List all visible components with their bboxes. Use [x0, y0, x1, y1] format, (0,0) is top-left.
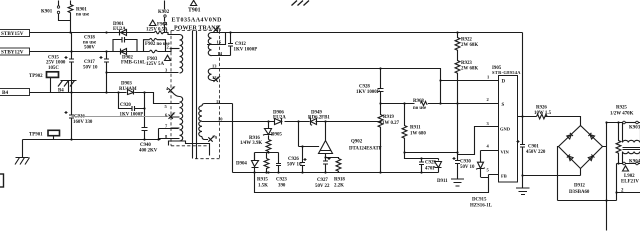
svg-text:C915: C915 — [48, 55, 59, 60]
svg-text:D905: D905 — [271, 132, 282, 137]
svg-text:2W 68K: 2W 68K — [461, 43, 478, 48]
svg-text:1KV 1000P: 1KV 1000P — [356, 90, 380, 95]
svg-text:FMB-G16L: FMB-G16L — [121, 61, 146, 66]
svg-text:DC915: DC915 — [472, 198, 487, 203]
wire winding B bottom to pin9 area — [169, 141, 210, 156]
svg-text:R919: R919 — [383, 115, 394, 120]
svg-text:R922: R922 — [461, 37, 472, 42]
svg-text:125V 5A: 125V 5A — [146, 62, 164, 67]
svg-text:11: 11 — [216, 99, 221, 104]
wire pin11 to secondary ground — [232, 104, 234, 173]
svg-text:1/4W 3.9K: 1/4W 3.9K — [240, 141, 262, 146]
svg-text:2W 68K: 2W 68K — [461, 67, 478, 72]
svg-text:50V 10: 50V 10 — [460, 165, 475, 170]
diode D911 — [435, 159, 449, 185]
svg-text:TP901: TP901 — [29, 132, 43, 137]
wire primary DC rail pin16 y=32.5 — [212, 33, 523, 145]
svg-text:1/2W 470K: 1/2W 470K — [610, 111, 634, 116]
svg-text:S: S — [502, 103, 505, 108]
diode D905 — [263, 122, 282, 140]
svg-text:450V 220: 450V 220 — [526, 150, 546, 155]
node junction K901/R901 on 15V rail — [69, 31, 71, 33]
svg-text:500V: 500V — [84, 45, 95, 50]
jumper K901 — [41, 1, 71, 21]
svg-text:25V 1000: 25V 1000 — [46, 61, 66, 66]
svg-text:GND: GND — [500, 127, 511, 132]
capacitor C917 electrolytic — [83, 52, 109, 93]
transformer winding B pins 4-8 — [171, 93, 183, 141]
IC I905 STR-G8954A — [492, 66, 521, 182]
hand mark /// top — [292, 1, 310, 6]
wire secondary return pin3 y=72.8 — [107, 72, 179, 74]
wire AC right leg — [603, 123, 607, 231]
wire AC link top y=122.5 — [607, 122, 640, 124]
svg-text:VIN: VIN — [501, 150, 510, 155]
svg-text:D904: D904 — [236, 162, 247, 167]
svg-text:105C: 105C — [48, 66, 59, 71]
svg-text:1W 680: 1W 680 — [410, 131, 426, 136]
wire secondary ground bus A y=174 — [233, 172, 439, 174]
svg-text:C926: C926 — [288, 157, 299, 162]
svg-text:R926: R926 — [536, 105, 547, 110]
svg-text:ET035AA4V0ND: ET035AA4V0ND — [172, 18, 223, 24]
svg-text:D903: D903 — [121, 82, 132, 87]
jumper K904 — [617, 160, 640, 165]
resistor R915 1.5K — [257, 159, 269, 189]
test point TP902 — [29, 72, 59, 93]
fuse F902 no use — [145, 38, 171, 47]
test point TP901 — [29, 130, 60, 139]
capacitor C927 electrolytic — [315, 157, 331, 189]
svg-text:D911: D911 — [437, 179, 448, 184]
no-connect mark pin 9 — [208, 136, 214, 142]
ground symbol below C930 — [451, 164, 464, 187]
svg-text:C928: C928 — [359, 85, 370, 90]
svg-text:C940: C940 — [140, 143, 151, 148]
svg-text:C917: C917 — [84, 60, 95, 65]
svg-text:DTA124ESATF: DTA124ESATF — [349, 146, 382, 151]
connector STBY12V — [0, 48, 30, 56]
svg-text:R918: R918 — [334, 178, 345, 183]
wire drain pin13 to IC pin1 — [212, 69, 499, 105]
diode D904 — [236, 153, 259, 173]
chassis shield symbol near B4 — [58, 81, 77, 94]
svg-text:R911: R911 — [410, 125, 421, 130]
zener D949 RD6.2FB1 — [308, 111, 330, 126]
capacitor C912 snubber — [207, 33, 257, 56]
ground symbol below C901 — [516, 176, 530, 195]
svg-text:HZS16-1L: HZS16-1L — [470, 204, 493, 209]
capacitor C915 electrolytic — [46, 33, 74, 93]
svg-text:no use: no use — [76, 12, 90, 17]
wire STBY12V rail y=51.5 — [30, 40, 180, 52]
svg-text:D: D — [502, 80, 506, 85]
svg-text:T901: T901 — [188, 8, 201, 14]
no-connect mark pin 6 — [169, 113, 174, 119]
transformer winding E pins 11-10-9 — [199, 104, 233, 140]
no-connect mark pin 16 — [214, 26, 219, 32]
L902 label with warning — [621, 166, 639, 185]
transformer dashed boundary — [171, 31, 220, 159]
resistor R925 1/2W 470K — [610, 106, 634, 164]
svg-text:STBY12V: STBY12V — [1, 50, 24, 56]
svg-text:1.5K: 1.5K — [258, 183, 268, 188]
capacitor C926 electrolytic — [287, 157, 307, 173]
svg-text:10: 10 — [218, 117, 223, 122]
wire pin7 pin8 returns — [159, 129, 179, 140]
wire B4 bus y=92 — [30, 93, 179, 104]
zener D915 HZS16-1L — [470, 151, 493, 209]
svg-text:FB: FB — [501, 174, 507, 179]
wire feedback winding rail pin10 y=121.5 — [209, 121, 381, 123]
fuse F903 with warning triangle — [146, 50, 171, 67]
svg-text:B4: B4 — [2, 90, 8, 96]
capacitor C929 470P — [419, 159, 436, 173]
transformer primary-left winding A pins 1-2-3 — [170, 35, 183, 74]
capacitor C928 1KV 1000P — [356, 69, 384, 104]
wire rail P y=152 and rail Q y=159 — [405, 153, 458, 159]
svg-text:400 2KV: 400 2KV — [139, 148, 158, 153]
capacitor C901 main filter electrolytic — [517, 140, 546, 176]
no-connect mark pin 4 — [168, 87, 174, 93]
capacitor C920 1KV 1000P — [119, 93, 145, 118]
transformer core — [193, 31, 197, 159]
svg-text:no use: no use — [413, 106, 427, 111]
earth ground symbol bottom left — [15, 158, 30, 165]
wire STBY15V rail y=32.5 — [30, 33, 180, 35]
svg-text:C920: C920 — [120, 103, 131, 108]
svg-text:D912: D912 — [574, 184, 585, 189]
capacitor C923 390 — [276, 164, 287, 189]
resistor R911 1W 680 — [402, 104, 426, 153]
connector STBY15V — [0, 30, 30, 38]
connector B4 — [0, 89, 30, 97]
resistors R922 R923 startup chain — [455, 33, 478, 104]
fuse F904 with warning triangle — [146, 20, 168, 34]
diode D903 RU4AM — [119, 82, 137, 95]
capacitor C929? D-pin junction dots — [456, 151, 458, 153]
connector fragment bottom left edge — [0, 174, 4, 187]
svg-text:C927: C927 — [317, 178, 328, 183]
wire feedback bus B y=189.5 — [255, 173, 499, 193]
svg-text:C916: C916 — [74, 115, 85, 120]
diode D901 EU2A — [113, 22, 127, 36]
svg-text:2.2K: 2.2K — [334, 183, 344, 188]
wire primary ground bus y=139.6 — [23, 140, 161, 158]
svg-text:13: 13 — [212, 63, 217, 68]
wire pin14 y=55.8 — [212, 55, 231, 57]
svg-text:R915: R915 — [257, 178, 268, 183]
svg-text:D906: D906 — [273, 110, 284, 115]
svg-text:50V 10: 50V 10 — [83, 65, 98, 70]
svg-text:C901: C901 — [528, 144, 539, 149]
junction C915 on 12V rail — [70, 50, 72, 52]
svg-text:C923: C923 — [276, 178, 287, 183]
svg-text:K901: K901 — [41, 10, 53, 15]
diode D906 EU2A — [273, 110, 286, 124]
svg-text:160V 330: 160V 330 — [73, 120, 93, 125]
resistor R926 10W 1.5 — [534, 105, 552, 119]
bridge rectifier D912 D3SBA60 — [559, 126, 603, 195]
jumper K903 — [623, 121, 640, 131]
resistor R919 1W 0.27 — [378, 104, 399, 173]
svg-text:D3SBA60: D3SBA60 — [569, 190, 590, 195]
capacitor C940 400 2KV — [139, 93, 158, 154]
jumper K902 — [158, 1, 170, 33]
node junctions x=106 — [105, 31, 107, 33]
capacitor C916 electrolytic — [65, 93, 93, 140]
svg-text:1W 0.27: 1W 0.27 — [382, 121, 400, 126]
capacitor C930 electrolytic — [453, 157, 476, 170]
svg-text:1KV 1000P: 1KV 1000P — [234, 48, 258, 53]
wire gray no-use line to pin6 — [72, 116, 169, 118]
wire R926 dc feed y=117 — [518, 117, 581, 126]
capacitor C918 no use (gray loop) — [83, 35, 137, 51]
svg-text:K902: K902 — [158, 10, 170, 15]
wire IC pin3 GND routing — [458, 127, 499, 155]
svg-text:RD6.2FB1: RD6.2FB1 — [308, 116, 330, 121]
svg-text:K903: K903 — [629, 126, 640, 131]
svg-text:Q902: Q902 — [351, 140, 363, 145]
svg-text:50V 22: 50V 22 — [315, 184, 330, 189]
AC input pin 2 stub — [615, 189, 640, 194]
svg-text:STBY15V: STBY15V — [1, 31, 24, 37]
wire K904 to ground line x=616 — [616, 164, 618, 201]
resistor R901 (no use) — [68, 1, 90, 33]
svg-text:STR-G8954A: STR-G8954A — [492, 70, 521, 75]
transformer winding C pins 16-15-14 — [208, 33, 211, 56]
svg-text:390: 390 — [278, 183, 286, 188]
diode D902 FMB-G16L — [121, 49, 147, 66]
resistor R916 — [240, 136, 271, 153]
svg-text:50V 10: 50V 10 — [287, 163, 302, 168]
wire IC pin4 VIN — [481, 150, 499, 152]
transformer winding D pins 13-12 — [208, 69, 211, 81]
svg-text:15: 15 — [217, 39, 222, 44]
resistor R968 no use — [413, 99, 427, 111]
error amp / shunt regulator triangle Q902 — [318, 122, 382, 158]
svg-text:K904: K904 — [629, 160, 640, 165]
resistor R918 2.2K — [326, 158, 346, 189]
transformer T901 header — [172, 0, 223, 31]
svg-text:ELF21V: ELF21V — [621, 180, 639, 185]
svg-text:R925: R925 — [616, 106, 627, 111]
mini rail y=147 — [255, 122, 318, 164]
wire C930 column below pin2 junction — [457, 104, 459, 161]
wire source pin2 rail y=103.5 — [381, 103, 499, 105]
svg-text:C930: C930 — [460, 159, 471, 164]
svg-text:C912: C912 — [235, 42, 246, 47]
svg-text:470P: 470P — [425, 167, 435, 172]
svg-text:R923: R923 — [461, 61, 472, 66]
wire AC left leg — [523, 147, 617, 201]
line filter L902 ELF21V windings — [623, 123, 640, 164]
no-connect mark pin 12 — [212, 77, 219, 82]
svg-text:L902: L902 — [624, 174, 635, 179]
svg-text:TP902: TP902 — [29, 74, 43, 79]
